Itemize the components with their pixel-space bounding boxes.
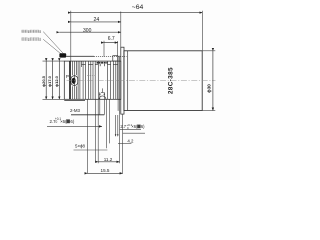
leader line from black label [43, 39, 62, 55]
svg-text:24: 24 [94, 17, 100, 23]
dimension 11.2 [98, 161, 119, 163]
wire dashed segment [94, 55, 127, 57]
extension line flange face (x=120.8 top) [120, 12, 122, 48]
leader 5xphi8 [74, 149, 108, 151]
svg-text:300: 300 [83, 28, 92, 34]
svg-text:6): 6) [141, 124, 145, 129]
rear step box on gearbox [113, 56, 118, 61]
diameter dim line 1 (x=46.2) [45, 61, 47, 99]
svg-text:28C-385: 28C-385 [168, 67, 175, 94]
leader arrow 4.2 right (x=117.8) [117, 115, 119, 136]
svg-text:ϕ20.5: ϕ20.5 [41, 75, 46, 87]
bottom extension A (x=87.5) [87, 99, 89, 174]
mid bay tick marks [99, 64, 101, 66]
leader 2.7 left [47, 125, 102, 127]
svg-text:ϕ30: ϕ30 [207, 84, 212, 93]
leader line from red label [43, 32, 64, 55]
right dim extension top [202, 50, 215, 52]
svg-text:15.5: 15.5 [101, 168, 110, 173]
dimension 6.7 [104, 36, 118, 56]
right dim extension bottom [202, 110, 215, 112]
extension line left (x=70.8) [70, 11, 72, 61]
svg-text:~64: ~64 [132, 4, 144, 11]
svg-text:4.2: 4.2 [127, 138, 134, 143]
svg-text:0: 0 [126, 126, 129, 130]
dimension 4.2 lower leader [118, 142, 131, 144]
svg-text:×6(: ×6( [131, 124, 138, 129]
wire exit blob [59, 53, 66, 57]
svg-text:2-M3: 2-M3 [70, 108, 81, 113]
leader arrow 4.2 left (x=115.6) [115, 115, 117, 136]
bottom extension D (x=120.8) [119, 114, 121, 163]
mid bay top dash row [97, 62, 108, 64]
boss center dot [72, 78, 76, 84]
gearbox outline [64, 61, 121, 99]
extension line mid (x=106.6) [106, 99, 108, 148]
bottom lip double line [64, 99, 85, 101]
svg-text:P: P [66, 74, 69, 79]
dimension 300 (wire length) [59, 28, 121, 34]
motor body [124, 51, 202, 111]
left extension bottom (y=99.3) [43, 98, 65, 100]
gearbox internal plate lines [73, 61, 118, 99]
plate top crossbars [82, 63, 118, 65]
output boss [71, 76, 78, 86]
motor front flange [121, 47, 124, 114]
diameter dim motor (x=212.9) [212, 51, 214, 111]
svg-text:×6(: ×6( [60, 119, 67, 124]
bottom extension E (x=124) [122, 114, 124, 173]
bottom extension C (x=98) [97, 99, 99, 163]
extension line (x=109.4) [108, 99, 110, 143]
dimension 24 [71, 17, 121, 23]
screw tick in bottom bay [101, 88, 104, 92]
svg-text:6.7: 6.7 [108, 36, 115, 42]
leader 2-M3 [71, 114, 104, 116]
svg-text:5×ϕ8: 5×ϕ8 [75, 143, 85, 148]
svg-text:ϕ12.0: ϕ12.0 [54, 75, 59, 87]
screw dome in bottom bay [99, 96, 106, 99]
dimension 4.2 upper leader [123, 132, 145, 134]
dimension ~64 [71, 4, 203, 13]
leader 2.7 right [120, 129, 141, 131]
svg-text:11.2: 11.2 [104, 157, 113, 162]
wire label red (接正极) simulated CJK smudge [22, 30, 41, 33]
dimension 15.5 [88, 172, 123, 174]
rear plate lines [117, 56, 119, 111]
svg-text:6): 6) [70, 119, 74, 124]
wire solid segment [66, 55, 94, 57]
diameter dim line 3 (x=59.3) [58, 61, 60, 99]
centerline [67, 80, 216, 82]
left extension top (y=61) [43, 60, 65, 62]
svg-text:0: 0 [55, 120, 58, 124]
svg-text:ϕ17.0: ϕ17.0 [47, 75, 52, 87]
white slits in label smudges [22, 30, 41, 41]
bottom extension B (x=95.5) [95, 99, 97, 162]
extension line motor rear (x=202.3) [201, 11, 203, 51]
motor neck line [127, 51, 129, 111]
wire label black (接负极) simulated CJK smudge [22, 38, 41, 41]
diameter dim line 2 (x=52.6) [52, 61, 54, 99]
extension line 6.7 left (x=104) [103, 41, 105, 57]
gearbox front face plate (thick) [69, 61, 71, 99]
hidden dashed line in gearbox [87, 75, 97, 77]
